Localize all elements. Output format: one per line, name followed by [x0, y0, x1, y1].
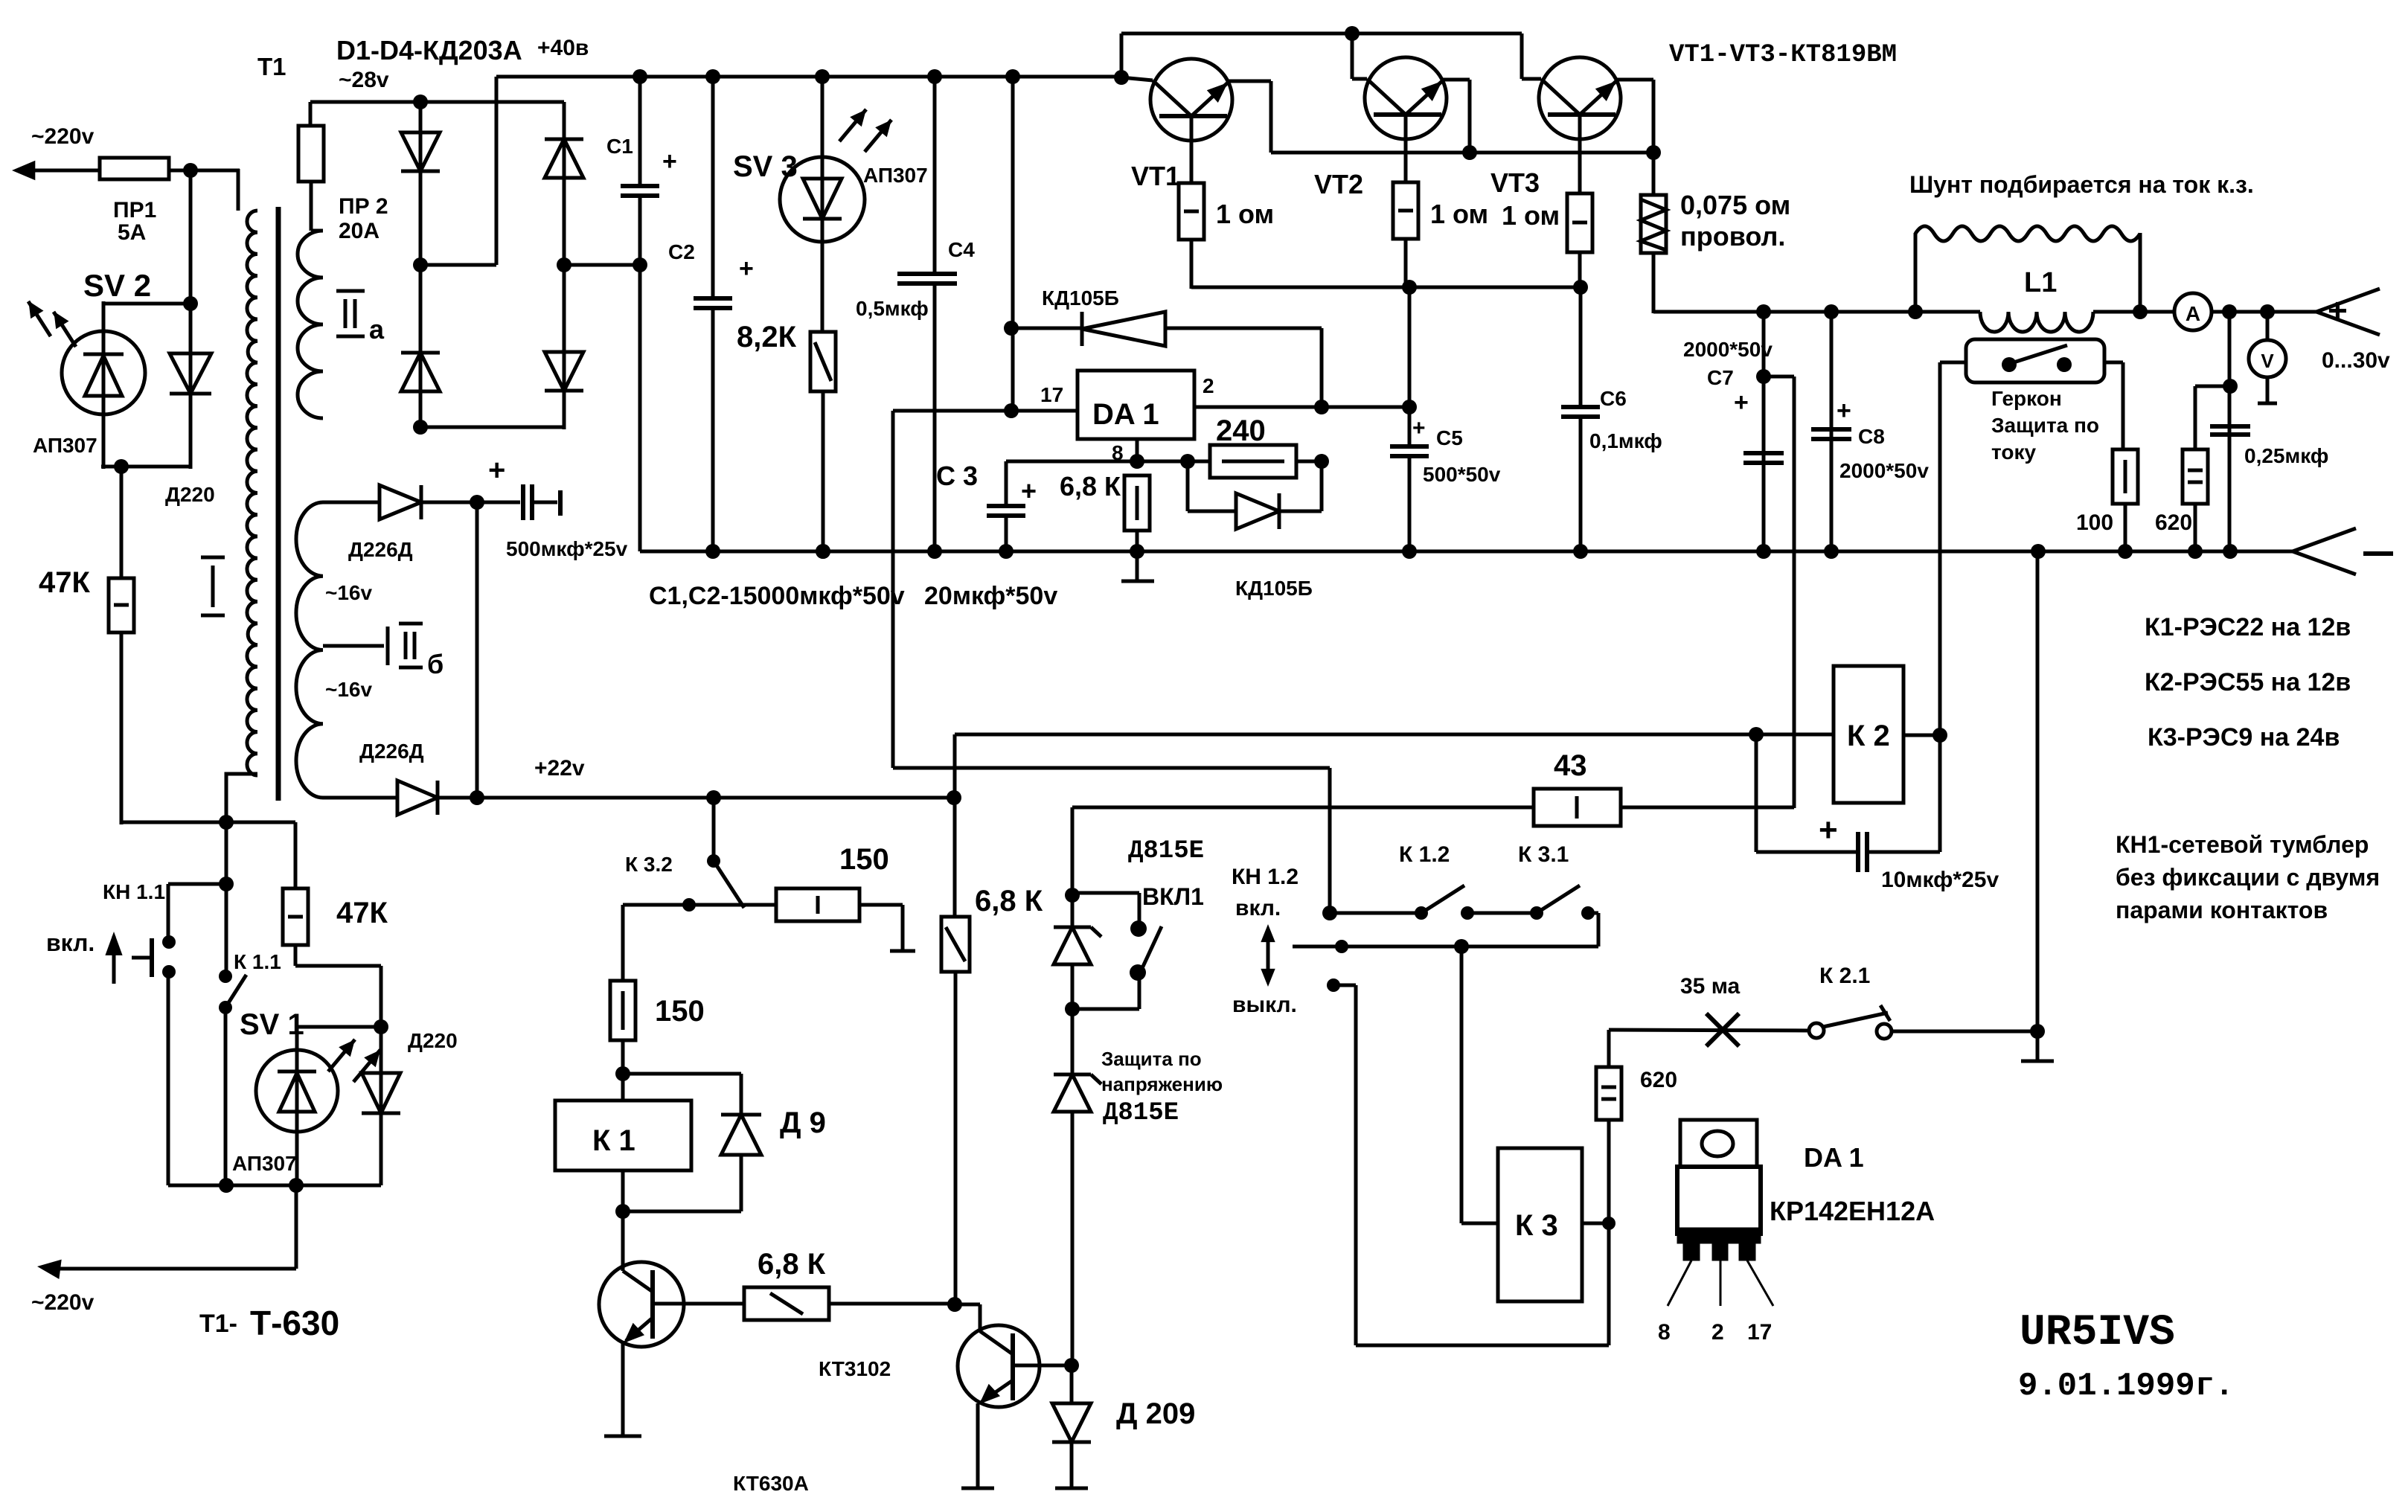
wire 47K to KN1.1 row — [121, 632, 226, 824]
diode D3 — [545, 139, 583, 178]
label pin 8 — [1112, 441, 1124, 464]
label 0..30v — [2322, 348, 2390, 373]
wire base rail — [1191, 286, 1581, 289]
switch VKL1 — [1130, 920, 1162, 981]
label T1 — [257, 53, 286, 80]
node bottom SV1 — [289, 1178, 304, 1193]
svg-text:+: + — [662, 147, 677, 176]
wire bridge mid2 to C1 — [564, 263, 640, 267]
wire VKL1 bottom — [1072, 973, 1139, 1009]
wire SV2 bottom — [101, 465, 190, 469]
svg-text:выкл.: выкл. — [1232, 993, 1297, 1017]
svg-text:К 3: К 3 — [1515, 1209, 1558, 1242]
wire KN11 branch — [168, 822, 226, 978]
label K 2 — [1847, 720, 1890, 752]
svg-text:+: + — [1819, 812, 1838, 848]
label AP307 SV3 — [863, 164, 928, 187]
resistor 240 — [1189, 445, 1323, 478]
label K 1.1 — [234, 950, 281, 973]
node rail SV3 — [815, 69, 830, 84]
svg-text:+: + — [1837, 397, 1851, 425]
zener D815E lower — [1054, 1074, 1101, 1112]
svg-text:+: + — [1412, 416, 1426, 441]
label K 1.2 — [1399, 842, 1450, 867]
svg-text:8,2К: 8,2К — [737, 321, 797, 353]
svg-text:КД105Б: КД105Б — [1042, 286, 1119, 310]
fuse PR2 — [298, 102, 324, 220]
label C5 — [1412, 416, 1501, 486]
svg-text:500мкф*25v: 500мкф*25v — [506, 537, 628, 560]
node row1 d — [1530, 906, 1543, 920]
node K3 right — [1602, 1217, 1616, 1230]
svg-text:6,8 К: 6,8 К — [758, 1248, 826, 1281]
terminal minus out — [2293, 528, 2393, 574]
svg-text:КТ3102: КТ3102 — [819, 1357, 891, 1380]
LED SV2 arrows — [28, 301, 76, 347]
svg-text:напряжению: напряжению — [1101, 1073, 1223, 1095]
label D226D upper — [348, 538, 413, 561]
label C8 — [1837, 397, 1929, 482]
node rail C4 — [927, 69, 942, 84]
wire 47K2 branch — [226, 822, 295, 888]
svg-text:VT1: VT1 — [1131, 161, 1180, 191]
zener D815E upper — [1054, 927, 1101, 964]
svg-text:К3-РЭС9 на 24в: К3-РЭС9 на 24в — [2148, 723, 2340, 752]
wire bottom exit — [37, 1185, 296, 1279]
svg-text:SV 3: SV 3 — [733, 150, 798, 183]
wire 35ma line — [1609, 1030, 1809, 1031]
node 240 left — [1180, 454, 1195, 469]
svg-text:240: 240 — [1216, 414, 1266, 447]
label D 209 — [1116, 1397, 1195, 1430]
svg-text:Геркон: Геркон — [1991, 387, 2062, 410]
label 620 out — [2155, 510, 2192, 535]
node C8 minus — [1824, 544, 1839, 559]
label K1 relay type — [2145, 613, 2351, 641]
svg-text:2000*50v: 2000*50v — [1839, 459, 1929, 482]
svg-text:47К: 47К — [336, 897, 388, 929]
switch K1.2 blade — [1421, 885, 1464, 913]
svg-text:6,8 К: 6,8 К — [1060, 471, 1121, 502]
svg-text:0,1мкф: 0,1мкф — [1589, 429, 1662, 452]
svg-text:DA 1: DA 1 — [1804, 1142, 1864, 1173]
svg-text:C4: C4 — [948, 238, 975, 261]
svg-text:C8: C8 — [1858, 425, 1885, 448]
node KT3102 collector — [947, 1297, 962, 1312]
svg-text:2: 2 — [1711, 1320, 1724, 1345]
arrow vkl — [105, 932, 122, 984]
node 47K top — [114, 459, 129, 474]
label SV 2 — [83, 268, 151, 303]
node C5 minus — [1402, 544, 1417, 559]
label AP307 SV1 — [232, 1152, 297, 1175]
capacitor C1 — [621, 77, 659, 551]
label zashita — [1101, 1048, 1223, 1095]
node out L1 left — [1908, 304, 1923, 319]
node C3 minus — [999, 544, 1014, 559]
label VT3 — [1490, 167, 1540, 198]
wire +40v rail — [496, 75, 1124, 79]
wire bridge mid link — [420, 77, 496, 265]
node row2 b — [1454, 939, 1469, 954]
wire collector top rail — [1121, 33, 1522, 79]
node 100 minus — [2118, 544, 2133, 559]
label 0.5mkf — [856, 297, 929, 320]
node bridge mid1 — [413, 257, 428, 272]
svg-text:10мкф*25v: 10мкф*25v — [1881, 868, 1999, 892]
resistor VT1 1om — [1179, 116, 1204, 289]
svg-text:VT2: VT2 — [1314, 169, 1363, 199]
resistor 150 vert — [610, 905, 635, 1075]
wire K3 right — [1582, 1222, 1609, 1226]
svg-text:вкл.: вкл. — [1235, 896, 1281, 920]
label C7 — [1683, 338, 1773, 417]
node row1 b — [1415, 906, 1428, 920]
label KN1 note — [2116, 831, 2380, 923]
capacitor C6 — [1561, 287, 1600, 551]
node bottom K11 — [219, 1178, 234, 1193]
label PR1 — [113, 198, 156, 245]
svg-text:150: 150 — [839, 843, 889, 876]
capacitor C2 — [694, 77, 732, 551]
label pins 8 2 17 — [1658, 1320, 1772, 1345]
svg-text:~220v: ~220v — [31, 124, 95, 149]
diode D220 upper — [170, 304, 211, 469]
svg-text:a: a — [369, 314, 385, 345]
wire K2.1 to gnd — [1892, 1030, 2037, 1034]
label VT1-VT3-KT819BM — [1669, 41, 1897, 69]
relay K2 box — [1834, 666, 1903, 803]
wire 500uF to +22v — [475, 502, 479, 798]
label K3 relay type — [2148, 723, 2340, 752]
node C6 base — [1573, 280, 1588, 295]
label plus 500uF — [488, 454, 505, 487]
svg-text:17: 17 — [1040, 383, 1063, 406]
svg-text:~16v: ~16v — [325, 581, 372, 604]
label vkl KN11 — [46, 929, 95, 956]
wire K3 feed — [1461, 946, 1498, 1223]
wire KT3102 base — [1013, 1364, 1072, 1368]
label 620 K3 — [1640, 1068, 1677, 1092]
svg-text:1 ом: 1 ом — [1216, 199, 1274, 229]
label VT1 — [1131, 161, 1180, 191]
label D815E upper — [1128, 837, 1204, 865]
svg-text:20А: 20А — [339, 219, 380, 243]
svg-text:1 ом: 1 ом — [1430, 199, 1488, 229]
resistor VT3 1om — [1567, 115, 1592, 289]
switch K1.1 — [219, 970, 246, 1185]
capacitor C3 — [987, 461, 1025, 551]
svg-text:35 ма: 35 ма — [1680, 974, 1741, 999]
wire vykl branch — [1333, 985, 1609, 1345]
resistor shunt 0.075 — [1641, 153, 1666, 313]
node C4 minus — [927, 544, 942, 559]
svg-text:+22v: +22v — [534, 756, 585, 781]
resistor 47K upper — [109, 467, 134, 632]
label K 3 — [1515, 1209, 1558, 1242]
resistor 8.2K — [810, 332, 836, 551]
relay K3 box — [1498, 1148, 1582, 1301]
node minus D220 — [816, 544, 830, 559]
svg-text:Т1: Т1 — [257, 53, 286, 80]
label 0.075om — [1680, 190, 1790, 252]
label D815E lower — [1103, 1099, 1179, 1127]
label K2 relay type — [2145, 668, 2351, 696]
svg-text:Д 209: Д 209 — [1116, 1397, 1195, 1430]
node minus 2739 — [2031, 544, 2046, 559]
svg-text:К 1.1: К 1.1 — [234, 950, 281, 973]
switch KN1.1 — [132, 935, 176, 1185]
label VKL1 — [1142, 883, 1204, 910]
svg-text:Д815Е: Д815Е — [1128, 837, 1204, 865]
svg-text:КН 1.2: КН 1.2 — [1232, 865, 1299, 889]
label 1om VT3 — [1502, 200, 1560, 231]
secondary IIb coil — [296, 502, 323, 798]
wire zener to KT3102 — [1071, 1112, 1075, 1367]
label SV 3 — [733, 150, 798, 183]
node pin2-C5 — [1402, 400, 1417, 414]
node KD105B junction — [1004, 321, 1019, 336]
wire pole row2 — [1293, 945, 1598, 949]
resistor 6.8K DA1 — [1124, 475, 1150, 551]
capacitor C7 — [1743, 312, 1784, 551]
diode KD105B lower — [1188, 461, 1322, 529]
label plus out — [2328, 291, 2348, 330]
svg-text:VT1-VT3-КТ819ВМ: VT1-VT3-КТ819ВМ — [1669, 41, 1897, 69]
svg-text:Т1-: Т1- — [199, 1310, 237, 1338]
node primary-bottom junction — [219, 815, 234, 830]
wire gerkon left — [1940, 362, 1966, 737]
node row1 c — [1461, 906, 1474, 920]
svg-text:~28v: ~28v — [339, 68, 389, 92]
label C2 — [668, 240, 754, 283]
diode D4 — [545, 352, 583, 391]
svg-text:C2: C2 — [668, 240, 695, 263]
label D226D lower — [359, 740, 424, 763]
node K1 top — [615, 1066, 630, 1081]
resistor 620 out — [2183, 386, 2230, 551]
label pin 2 — [1203, 374, 1214, 397]
capacitor C5 — [1390, 287, 1429, 551]
svg-text:+: + — [1734, 388, 1749, 417]
label UR5IVS — [2020, 1309, 2175, 1357]
svg-text:SV 2: SV 2 — [83, 268, 151, 303]
ammeter A — [2174, 293, 2212, 330]
label DA 1 pkg — [1804, 1142, 1864, 1173]
svg-text:620: 620 — [1640, 1068, 1677, 1092]
resistor 43 — [1072, 789, 1794, 826]
label C4 — [948, 238, 975, 261]
svg-text:~16v: ~16v — [325, 678, 372, 701]
label ~16v lower — [325, 678, 372, 701]
node C7 minus — [1756, 544, 1771, 559]
svg-text:+: + — [1021, 475, 1037, 506]
ic DA1 package — [1668, 1120, 1773, 1306]
node out L1 right — [2133, 304, 2148, 319]
node C1 mid — [633, 257, 647, 272]
svg-text:+: + — [488, 454, 505, 487]
label 150 horiz — [839, 843, 889, 876]
svg-text:43: 43 — [1554, 749, 1587, 782]
switch K2.1 — [1809, 1005, 1892, 1039]
svg-text:620: 620 — [2155, 510, 2192, 535]
label 240 — [1216, 414, 1266, 447]
svg-text:47К: 47К — [39, 566, 90, 599]
wire C7 tap stub — [1764, 377, 1794, 808]
svg-text:5А: 5А — [118, 220, 146, 245]
node fuse-SV2 junction — [183, 163, 198, 178]
node C6 minus — [1573, 544, 1588, 559]
svg-text:К 2: К 2 — [1847, 720, 1890, 752]
svg-text:току: току — [1991, 441, 2036, 464]
node top rail VT2 — [1345, 26, 1360, 41]
node KN11 junction — [219, 877, 234, 891]
label T1-T630 — [199, 1304, 339, 1342]
svg-text:C5: C5 — [1436, 426, 1463, 449]
label 47K upper — [39, 566, 90, 599]
node 620 minus — [2188, 544, 2203, 559]
svg-text:Д815Е: Д815Е — [1103, 1099, 1179, 1127]
label 0.25mkf — [2244, 444, 2328, 467]
transistor VT3 — [1522, 57, 1653, 153]
node K2 route cap — [1749, 727, 1764, 742]
svg-text:АП307: АП307 — [33, 434, 97, 457]
label KD105B lower — [1235, 577, 1313, 600]
label K 3.1 — [1518, 842, 1569, 867]
label +40v — [537, 36, 589, 60]
inductor L1 — [1980, 312, 2175, 332]
label plus 10uF — [1819, 812, 1838, 848]
diode KD105B upper — [1011, 312, 1322, 409]
label K 2.1 — [1819, 964, 1870, 988]
svg-text:КД105Б: КД105Б — [1235, 577, 1313, 600]
capacitor C4 — [897, 77, 957, 551]
wire SV1 link — [297, 1027, 381, 1185]
node +22v end — [947, 790, 961, 805]
transistor VT2 — [1352, 57, 1470, 153]
winding IIb center tap — [323, 624, 444, 679]
svg-text:C7: C7 — [1707, 366, 1734, 389]
label vkl2 — [1235, 896, 1281, 920]
label K 3.2 — [625, 853, 673, 876]
svg-text:1 ом: 1 ом — [1502, 200, 1560, 231]
svg-text:20мкф*50v: 20мкф*50v — [924, 582, 1057, 610]
resistor 100 — [2113, 449, 2138, 551]
svg-text:АП307: АП307 — [863, 164, 928, 187]
resistor 6.8K base — [744, 1287, 957, 1320]
capacitor C8 — [1811, 312, 1851, 551]
wire row1 end — [1588, 913, 1598, 946]
svg-text:+: + — [739, 254, 754, 283]
terminal plus out — [2316, 289, 2380, 335]
capacitor 10uF — [1756, 734, 1940, 872]
svg-text:0,5мкф: 0,5мкф — [856, 297, 929, 320]
LED SV2 — [62, 331, 145, 414]
secondary IIa coil — [298, 220, 323, 418]
label KT630A — [733, 1472, 809, 1495]
label vykl — [1232, 993, 1297, 1017]
LED SV1 arrows — [328, 1039, 380, 1082]
wire pin8 row — [1006, 460, 1189, 464]
wire emitter rail — [1271, 151, 1653, 155]
svg-text:+: + — [2328, 291, 2348, 330]
node out C7 — [1756, 304, 1771, 319]
label 8.2K — [737, 321, 797, 353]
svg-text:Д220: Д220 — [408, 1029, 458, 1052]
relay K1 box — [555, 1074, 691, 1213]
wire primary bottom — [226, 774, 257, 822]
svg-text:К 3.1: К 3.1 — [1518, 842, 1569, 867]
mark X 35ma — [1706, 1013, 1739, 1046]
svg-text:2: 2 — [1203, 374, 1214, 397]
node bridge bottom — [413, 420, 428, 435]
svg-text:вкл.: вкл. — [46, 929, 95, 956]
label 35 ma — [1680, 974, 1741, 999]
svg-text:К 3.2: К 3.2 — [625, 853, 673, 876]
node row3 contact — [1327, 978, 1340, 992]
label gerkon — [1991, 387, 2099, 464]
svg-text:ПР1: ПР1 — [113, 198, 156, 222]
svg-text:Защита по: Защита по — [1991, 414, 2099, 437]
label pin 17 — [1040, 383, 1063, 406]
node row1 e — [1581, 906, 1595, 920]
wire KT630A base — [653, 1302, 744, 1306]
wire ~28v line — [310, 100, 564, 104]
wire pin8 — [1136, 439, 1139, 463]
node 025 minus — [2223, 544, 2238, 559]
wire minus rail — [640, 550, 2293, 554]
label ~16v upper — [325, 581, 372, 604]
wire pin17 — [1011, 409, 1077, 413]
node row2 a — [1335, 940, 1348, 953]
label 1om VT1 — [1216, 199, 1274, 229]
core T1 — [276, 207, 281, 801]
diode D226D lower — [323, 781, 955, 815]
svg-text:0,25мкф: 0,25мкф — [2244, 444, 2328, 467]
LED SV3 arrows — [839, 109, 891, 152]
svg-text:К 2.1: К 2.1 — [1819, 964, 1870, 988]
node K2.1 gnd — [2030, 1024, 2045, 1039]
label ~28v — [339, 68, 389, 92]
wire DA1 top drop — [1011, 77, 1015, 412]
label SV 1 — [240, 1008, 304, 1041]
label D 9 — [780, 1106, 826, 1139]
svg-text:500*50v: 500*50v — [1423, 463, 1501, 486]
wire contact row1 — [1330, 912, 1421, 915]
diode D1 — [401, 132, 440, 171]
label 43 — [1554, 749, 1587, 782]
wire SV2 drop — [189, 170, 193, 306]
label ~220v bottom — [31, 1290, 95, 1315]
node emitter VT2 — [1462, 145, 1477, 160]
wire bridge col2 — [563, 102, 566, 394]
node SV2 top — [183, 296, 198, 311]
label 10uF — [1881, 868, 1999, 892]
wire AC input left with arrow — [12, 161, 100, 181]
svg-text:SV 1: SV 1 — [240, 1008, 304, 1041]
wire out rail right — [2212, 310, 2316, 314]
label 6.8K base — [758, 1248, 826, 1281]
svg-text:9.01.1999г.: 9.01.1999г. — [2018, 1368, 2234, 1405]
svg-text:КТ630А: КТ630А — [733, 1472, 809, 1495]
wire bridge bottom — [420, 394, 564, 429]
wire K2 route — [955, 734, 1834, 917]
svg-text:100: 100 — [2076, 510, 2113, 535]
ic DA1 — [1077, 371, 1194, 439]
winding marker IIa — [336, 291, 385, 345]
resistor 6.8K mid — [941, 917, 970, 1307]
transistor VT1 — [1121, 59, 1271, 153]
